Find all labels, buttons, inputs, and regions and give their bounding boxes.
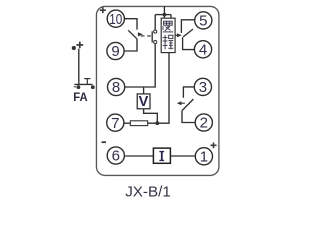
polarity + near terminal 1 <box>211 143 217 149</box>
contact K2 actuation arrow <box>175 33 182 37</box>
armature contact circle lower <box>154 41 157 44</box>
terminal 10 <box>107 10 124 28</box>
wire resistor R1 to logic box bottom <box>148 53 169 124</box>
wire top feed bar to case top <box>163 6 165 14</box>
terminal 9 <box>107 42 124 60</box>
wire terminal 5 to contact K2 fixed end <box>181 20 194 33</box>
FA switch blade wire <box>78 49 80 85</box>
terminal 7 <box>107 114 124 132</box>
stub V box top to wire of terminal 8 <box>143 87 145 94</box>
svg-text:6: 6 <box>112 148 120 165</box>
armature contact circle upper <box>154 30 157 33</box>
terminal 1 <box>195 148 212 166</box>
FA base bar <box>74 83 92 85</box>
logic unit U1 box <box>161 18 175 52</box>
junction dot on top feed bar <box>163 13 167 17</box>
wire terminal 7 to resistor R1 <box>124 122 130 124</box>
junction dot at V branch <box>155 121 159 125</box>
svg-text:7: 7 <box>111 115 119 132</box>
svg-text:3: 3 <box>199 79 207 96</box>
terminal 6 <box>107 147 124 165</box>
svg-text:9: 9 <box>111 43 119 60</box>
logic unit character ji (bottom) <box>163 35 174 50</box>
FA right terminal dot <box>91 85 95 89</box>
wire terminal 4 to contact K2 pivot <box>183 37 195 49</box>
wire terminal 2 to contact K3 pivot <box>182 111 195 123</box>
svg-text:4: 4 <box>199 42 207 59</box>
svg-text:5: 5 <box>199 13 207 30</box>
svg-text:2: 2 <box>200 115 208 132</box>
stub top feed bar to logic box top <box>164 15 171 19</box>
terminal 3 <box>194 78 211 96</box>
svg-text:10: 10 <box>109 11 122 28</box>
FA plus sign <box>76 42 83 49</box>
contact K1 actuation arrow <box>138 32 152 36</box>
wire V box bottom to junction on resistor wire <box>144 109 158 123</box>
wire current element I box to terminal 1 <box>171 155 196 157</box>
logic unit character luo (top) <box>163 21 174 32</box>
FA left tick <box>74 86 77 88</box>
FA positive supply dot <box>72 46 76 50</box>
armature bar of relay element <box>151 31 153 42</box>
top feed bar <box>155 14 171 16</box>
voltage element V box <box>137 94 150 110</box>
resistor R1 <box>130 121 147 126</box>
wire terminal 10 to contact K1 fixed end <box>125 19 138 30</box>
terminal 2 <box>195 114 212 132</box>
wire terminal 3 to contact K3 fixed end <box>183 87 194 98</box>
FA left terminal dot <box>77 85 81 89</box>
terminal 8 <box>108 78 125 96</box>
svg-text:JX-B/1: JX-B/1 <box>125 183 171 200</box>
polarity + top-left <box>100 7 106 13</box>
contact K3 actuation arrow <box>177 101 185 105</box>
contact K1 blade <box>128 30 137 39</box>
svg-text:V: V <box>139 94 149 110</box>
wire upper contact circle to top feed bar <box>154 15 156 30</box>
svg-text:1: 1 <box>200 149 208 166</box>
terminal 5 <box>195 12 212 30</box>
wire terminal 6 to current element I box <box>125 155 153 157</box>
FA label <box>73 90 88 104</box>
wire terminal 8 to armature lower circle <box>125 44 155 87</box>
FA fixed contact stub <box>84 79 90 85</box>
contact K3 blade <box>182 99 193 111</box>
contact K2 blade <box>183 29 193 37</box>
polarity - near terminal 6 <box>102 141 107 143</box>
current element I box <box>153 148 170 163</box>
enclosure case outline <box>96 6 218 175</box>
svg-text:8: 8 <box>112 79 120 96</box>
svg-text:FA: FA <box>73 90 88 104</box>
model caption JX-B/1 <box>125 183 171 200</box>
terminal 4 <box>194 41 211 59</box>
wire terminal 9 to contact K1 pivot <box>124 39 137 51</box>
